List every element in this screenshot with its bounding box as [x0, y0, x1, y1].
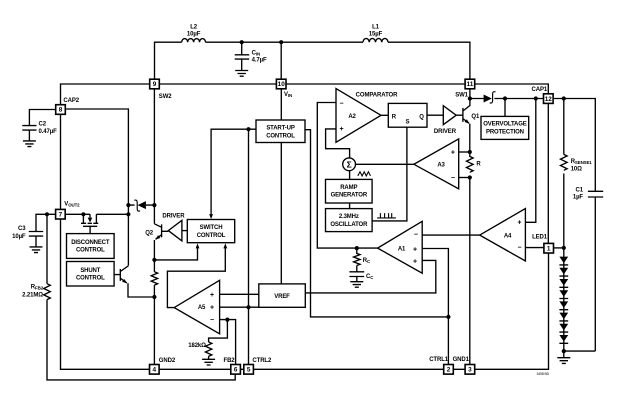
svg-text:A4: A4 — [504, 234, 512, 240]
clock waveform symbol — [377, 213, 396, 218]
resistor Q2 emitter (unlabeled) — [151, 272, 157, 285]
wire A5 minus to 182k resistor — [209, 320, 228, 342]
wire A3 minus to R bottom — [459, 177, 470, 179]
pin 11 SW1 — [465, 79, 475, 89]
wire pin 8 to pin 7 riser — [60, 114, 62, 209]
node shunt emitter junction — [152, 295, 156, 299]
wire CTRL2 riser — [248, 129, 250, 364]
svg-text:3: 3 — [468, 367, 472, 374]
svg-text:VOUT2: VOUT2 — [64, 202, 80, 208]
capacitor C1 — [588, 191, 603, 351]
ground C3 — [30, 247, 43, 253]
op-amp A4 — [480, 209, 526, 262]
svg-text:GND2: GND2 — [159, 358, 176, 364]
svg-text:15µF: 15µF — [369, 31, 383, 37]
svg-text:−: − — [414, 232, 418, 239]
svg-text:4: 4 — [153, 367, 157, 374]
wire top rail middle (L2 to L1) — [206, 41, 364, 43]
svg-text:2.21MΩ: 2.21MΩ — [22, 293, 43, 299]
svg-text:7: 7 — [59, 211, 63, 218]
wire A1 plus1 to CTRL1 — [422, 249, 448, 365]
wire latch Q to driver — [427, 114, 443, 116]
node CIN junction — [240, 40, 244, 44]
op-amp A1 — [378, 221, 423, 273]
svg-text:Q1: Q1 — [471, 114, 480, 120]
wire A4 minus to LED1 pin — [525, 247, 544, 249]
svg-text:VIN: VIN — [284, 92, 292, 98]
node RC junction — [355, 246, 359, 250]
svg-text:CTRL2: CTRL2 — [252, 358, 272, 364]
svg-text:9: 9 — [153, 81, 157, 88]
node D2 cathode junction on SW2 line — [152, 203, 156, 207]
svg-text:−: − — [340, 101, 344, 108]
svg-text:SHUNT: SHUNT — [80, 268, 100, 274]
svg-text:CONTROL: CONTROL — [76, 276, 105, 282]
op-amp A3 — [414, 139, 459, 189]
wire CAP2 to D2 cathode riser — [66, 109, 129, 266]
node MOSFET tap junction — [81, 212, 85, 216]
svg-text:CAP1: CAP1 — [532, 87, 548, 93]
wire pin 12 to pin 1 — [547, 103, 549, 243]
svg-text:DISCONNECT: DISCONNECT — [71, 240, 110, 246]
svg-text:S: S — [406, 119, 410, 125]
node OVP junction — [503, 96, 507, 100]
svg-text:CC: CC — [366, 274, 374, 280]
wire A4 plus riser — [525, 99, 536, 223]
wire A1 plus2 to VREF — [305, 260, 436, 293]
pin 6 FB2 — [231, 365, 241, 375]
svg-text:SWITCH: SWITCH — [200, 225, 223, 231]
wire OVP riser — [504, 99, 506, 117]
svg-text:0.47µF: 0.47µF — [39, 129, 58, 135]
node A4 plus junction — [534, 96, 538, 100]
svg-text:A2: A2 — [348, 114, 356, 120]
wire CAP1 to C1 — [553, 99, 595, 192]
svg-text:10Ω: 10Ω — [571, 166, 582, 172]
svg-text:L2: L2 — [190, 24, 198, 30]
wire oscillator to S input — [372, 127, 407, 221]
svg-text:−: − — [451, 175, 455, 182]
ground C2 — [23, 141, 36, 147]
inductor L1 — [363, 38, 388, 42]
ground CC — [350, 282, 363, 288]
wire VIN riser pin10 to START-UP — [280, 89, 282, 120]
node SW1 junction — [468, 96, 472, 100]
box START-UP CONTROL — [256, 120, 305, 143]
pin 7 VOUT2 — [56, 209, 66, 219]
wire A2 plus to sigma — [326, 129, 350, 158]
wire START-UP to SWITCH CONTROL top arrow — [209, 129, 256, 219]
svg-text:SW1: SW1 — [455, 92, 468, 98]
wire sigma to ramp generator — [349, 171, 351, 180]
wire top rail left (SW2 to L2) — [155, 42, 182, 79]
node RFB2 junction — [45, 212, 49, 216]
svg-text:12: 12 — [545, 96, 553, 103]
svg-text:SW2: SW2 — [159, 94, 172, 100]
wire A3 plus to R top — [459, 151, 470, 153]
ground CIN — [235, 71, 248, 77]
svg-text:CTRL1: CTRL1 — [429, 357, 449, 363]
node VOUT2-riser junction — [126, 212, 130, 216]
box OVERVOLTAGE PROTECTION — [481, 116, 529, 139]
wire top rail right (L1 to SW1 pin 11) — [388, 42, 470, 79]
wire switch control to driver — [182, 230, 187, 232]
svg-text:+: + — [451, 150, 455, 157]
pin 3 GND1 — [465, 365, 475, 375]
pin 2 CTRL1 — [444, 365, 454, 375]
svg-text:2: 2 — [447, 367, 451, 374]
wire A1 output / comp node to A2 minus — [317, 103, 378, 249]
wire VIN riser (top rail to pin 10) — [280, 42, 282, 79]
svg-text:3498 BD: 3498 BD — [537, 372, 550, 376]
svg-text:COMPARATOR: COMPARATOR — [356, 93, 398, 99]
wire START-UP to VREF — [280, 143, 282, 284]
op-amp A5 — [174, 280, 219, 334]
pin 12 CAP1 — [544, 94, 554, 104]
svg-text:A1: A1 — [398, 247, 406, 253]
wire ramp generator to oscillator — [349, 203, 351, 209]
box RAMP GENERATOR — [326, 179, 373, 203]
wire A5 minus to FB2 — [220, 320, 236, 365]
pin 5 CTRL2 — [244, 365, 254, 375]
svg-text:10: 10 — [278, 81, 286, 88]
wire R bottom to GND1 pin 3 — [469, 178, 471, 365]
svg-text:+: + — [340, 126, 344, 133]
svg-text:182kΩ: 182kΩ — [188, 343, 206, 349]
svg-text:10µF: 10µF — [12, 234, 26, 240]
node LED1 junction — [562, 246, 566, 250]
ground LED string — [557, 351, 570, 363]
wire RFB2 top lead — [46, 214, 48, 283]
svg-text:Q: Q — [419, 115, 424, 121]
svg-text:PROTECTION: PROTECTION — [486, 130, 524, 136]
wire pin rail y=84 (CAP2 riser, SW2, VIN, SW1, to CAP1) — [61, 84, 549, 105]
transistor M1 disconnect MOSFET — [81, 214, 98, 233]
diode D1 (schottky SW1 to CAP1) — [470, 92, 544, 103]
svg-text:START-UP: START-UP — [266, 126, 295, 132]
wire START-UP right stub to CTRL1 node — [305, 130, 448, 317]
svg-text:OSCILLATOR: OSCILLATOR — [330, 222, 368, 228]
diode D2 (schottky to CAP2 node) — [128, 200, 154, 211]
node LED bottom junction — [562, 349, 566, 353]
svg-text:A5: A5 — [198, 305, 206, 311]
box DISCONNECT CONTROL — [67, 234, 115, 259]
svg-text:A3: A3 — [437, 163, 445, 169]
svg-text:RFB2: RFB2 — [31, 285, 44, 291]
svg-text:+: + — [413, 258, 417, 265]
node R bottom junction — [468, 175, 472, 179]
svg-text:CONTROL: CONTROL — [76, 248, 105, 254]
node R top junction — [468, 150, 472, 154]
svg-text:6: 6 — [234, 367, 238, 374]
svg-text:Q2: Q2 — [145, 230, 154, 236]
svg-text:−: − — [518, 244, 522, 251]
box VREF — [259, 284, 306, 307]
op-amp driver for Q1 — [443, 106, 456, 125]
wire RSENSE1 top lead — [563, 99, 565, 155]
svg-text:OVERVOLTAGE: OVERVOLTAGE — [483, 122, 527, 128]
node VIN junction on top rail — [279, 40, 283, 44]
wire A5 output to SWITCH CONTROL arrow — [167, 243, 227, 307]
wire A5 plus1 to VREF — [220, 293, 259, 295]
svg-text:+: + — [210, 305, 214, 312]
wire bottom rail (pin 7 to GND2 FB2 CTRL2 CTRL1 GND1 to LED1) — [61, 219, 549, 369]
wire CAP2 to C2 — [29, 110, 56, 126]
svg-text:+: + — [210, 292, 214, 299]
node A5 minus junction — [225, 318, 229, 322]
node CTRL2-A5 junction — [246, 305, 250, 309]
svg-text:GENERATOR: GENERATOR — [331, 193, 368, 199]
ground 182k — [202, 356, 215, 365]
op-amp driver for Q2 — [168, 220, 182, 241]
capacitor CIN — [235, 42, 250, 70]
transistor Q1 — [456, 99, 471, 153]
svg-text:GND1: GND1 — [453, 357, 470, 363]
svg-text:FB2: FB2 — [224, 358, 236, 364]
latch R S Q box — [388, 103, 427, 127]
node Q2 emitter junction — [152, 258, 156, 262]
svg-text:4.7µF: 4.7µF — [252, 57, 267, 63]
resistor 182k — [205, 342, 211, 356]
svg-text:1: 1 — [547, 246, 551, 253]
box SHUNT CONTROL — [67, 262, 115, 287]
LED string D3-D10 — [559, 248, 568, 351]
svg-text:1µF: 1µF — [573, 195, 584, 201]
wire SW1 pin 11 riser — [469, 89, 471, 99]
wire VOUT2 (C3 corner, pin 7, to riser) — [36, 214, 128, 231]
resistor RFB2 — [44, 284, 51, 300]
node RSENSE1 top junction — [562, 96, 566, 100]
pin 4 GND2 — [150, 365, 160, 375]
svg-text:C1: C1 — [576, 188, 584, 194]
wire SW2 riser (pin 9 down to Q2 collector) — [153, 89, 155, 224]
svg-text:CAP2: CAP2 — [63, 98, 79, 104]
transistor Q3 shunt — [114, 266, 154, 297]
capacitor C2 — [22, 126, 36, 141]
pin 8 CAP2 — [56, 105, 66, 115]
svg-text:8: 8 — [59, 107, 63, 114]
svg-text:RC: RC — [363, 258, 371, 264]
capacitor CC — [349, 266, 364, 282]
inductor L2 — [182, 39, 206, 43]
svg-text:CONTROL: CONTROL — [266, 133, 295, 139]
svg-text:DRIVER: DRIVER — [434, 129, 457, 135]
svg-text:DRIVER: DRIVER — [162, 214, 185, 220]
wire A5 plus2 to VREF corner — [220, 306, 259, 308]
wire RSENSE1 to LED1 node — [563, 174, 565, 248]
svg-text:−: − — [210, 317, 214, 324]
svg-text:C3: C3 — [18, 226, 26, 232]
resistor RC — [354, 248, 360, 265]
wire Q2 emitter to GND2 pin 4 — [153, 285, 155, 364]
ramp waveform symbol — [358, 172, 371, 176]
svg-text:5: 5 — [247, 367, 251, 374]
box 2.3MHz OSCILLATOR — [326, 209, 373, 232]
node D2 anode-riser junction — [126, 203, 130, 207]
svg-text:LED1: LED1 — [532, 235, 548, 241]
pin 9 SW2 — [150, 79, 160, 89]
wire sigma to A3 output — [356, 163, 414, 165]
svg-text:RSENSE1: RSENSE1 — [571, 159, 593, 165]
svg-text:C2: C2 — [39, 121, 47, 127]
wire C1 bottom to LED string bottom — [564, 350, 596, 352]
svg-text:L1: L1 — [372, 24, 380, 30]
op-amp A2 comparator — [336, 89, 381, 143]
svg-text:Σ: Σ — [347, 160, 352, 170]
pin 10 VIN — [276, 79, 286, 89]
svg-text:+: + — [413, 246, 417, 253]
node CTRL1 junction — [446, 315, 450, 319]
wire LED1 pin to LED string — [554, 247, 564, 249]
svg-text:10µF: 10µF — [187, 31, 201, 37]
svg-text:+: + — [518, 220, 522, 227]
capacitor C3 — [29, 232, 43, 247]
svg-text:VREF: VREF — [274, 294, 290, 300]
box SWITCH CONTROL — [187, 220, 234, 243]
svg-text:11: 11 — [467, 81, 474, 88]
wire RFB2 bottom loop to FB2 pin 6 — [47, 300, 235, 380]
wire A2 output to latch — [381, 114, 388, 116]
svg-text:CONTROL: CONTROL — [197, 233, 226, 239]
summer sigma circle — [343, 158, 356, 171]
svg-text:RAMP: RAMP — [340, 185, 357, 191]
svg-text:CIN: CIN — [252, 51, 260, 57]
resistor R — [466, 152, 473, 172]
wire Q2 node to SWITCH CONTROL arrow — [154, 243, 199, 260]
wire A4 output to A1 minus — [422, 234, 480, 236]
node CTRL2-STARTUP junction — [246, 127, 250, 131]
transistor Q2 — [154, 224, 168, 272]
resistor RSENSE1 — [561, 154, 568, 170]
svg-text:2.3MHz: 2.3MHz — [339, 214, 359, 220]
pin 1 LED1 — [544, 243, 554, 253]
